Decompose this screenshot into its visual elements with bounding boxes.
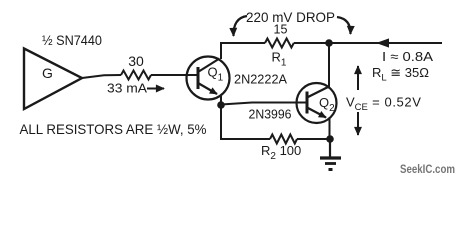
svg-text:220 mV DROP: 220 mV DROP: [246, 9, 335, 25]
svg-text:30: 30: [128, 53, 144, 69]
wire Q1 collector to top rail: [220, 43, 222, 59]
transistor Q1: [187, 57, 230, 100]
resistor 30: [121, 71, 151, 80]
wire node down to R2 branch: [220, 105, 222, 139]
svg-text:I ≈ 0.8A: I ≈ 0.8A: [382, 49, 433, 64]
wire Q1 emitter to node: [220, 96, 222, 105]
svg-text:G: G: [42, 65, 53, 81]
wire R2 to ground node: [297, 138, 330, 140]
svg-text:SeekIC.com: SeekIC.com: [400, 164, 455, 176]
svg-text:2N2222A: 2N2222A: [234, 72, 287, 87]
svg-text:2N3996: 2N3996: [249, 107, 292, 122]
wire top rail right segment with input current arrow: [329, 38, 442, 47]
node junction top rail / Q2 collector: [325, 39, 333, 47]
resistor R2 100: [270, 135, 297, 144]
gate U1 (1/2 SN7440) triangle: [24, 49, 82, 110]
node junction Q2 emitter / R2 / ground: [326, 135, 334, 143]
label 33 mA with current arrow: [107, 81, 164, 96]
wire resistor 30 to Q1 base: [151, 74, 198, 76]
svg-text:Q2: Q2: [319, 95, 335, 114]
Vce measurement arrow up: [357, 66, 359, 90]
svg-text:ALL RESISTORS ARE ½W, 5%: ALL RESISTORS ARE ½W, 5%: [20, 121, 207, 137]
ground: [320, 139, 341, 170]
node junction Q1 emitter: [217, 101, 225, 109]
svg-text:RL ≅ 35Ω: RL ≅ 35Ω: [372, 65, 429, 84]
drop arrow left: [233, 16, 247, 36]
svg-text:R2 100: R2 100: [261, 143, 301, 162]
wire R1 to node junction: [294, 42, 329, 44]
wire left bottom to R2: [220, 138, 270, 140]
wire gate output to resistor 30: [82, 75, 121, 78]
resistor R1 15: [265, 39, 294, 48]
wire Q2 emitter to ground node: [329, 118, 331, 139]
svg-text:R1: R1: [272, 50, 287, 69]
svg-text:½ SN7440: ½ SN7440: [42, 32, 102, 48]
svg-text:33 mA: 33 mA: [107, 81, 147, 96]
wire top rail left segment: [220, 42, 265, 44]
Vce measurement arrow down: [357, 112, 359, 135]
transistor Q2: [297, 83, 337, 123]
wire node to Q2 base: [221, 103, 307, 105]
drop arrow right: [337, 17, 351, 34]
svg-text:Q1: Q1: [208, 65, 224, 84]
wire Q2 collector to top rail node: [328, 43, 330, 87]
svg-text:VCE = 0.52V: VCE = 0.52V: [346, 95, 421, 114]
